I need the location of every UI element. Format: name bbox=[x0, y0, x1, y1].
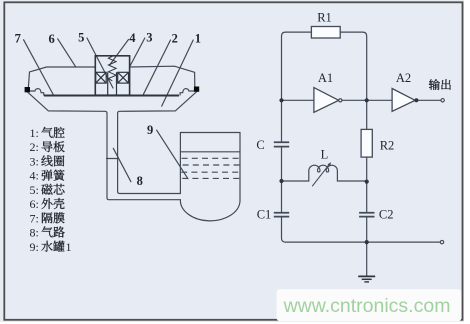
pipe joint tick bbox=[107, 158, 118, 160]
diaphragm thick line (part 7) bbox=[44, 94, 179, 96]
L variable arrow bbox=[312, 164, 329, 186]
junction dot L right / R2 bottom bbox=[365, 180, 369, 184]
water dashed line 2 bbox=[183, 164, 240, 166]
spring zigzag (part 4) bbox=[108, 56, 116, 81]
resistor R2 bbox=[361, 129, 372, 157]
housing bottom cone left + pipe outer wall bbox=[27, 92, 180, 200]
inductor L coil bbox=[309, 165, 338, 172]
right seal block (black square) bbox=[194, 87, 199, 92]
svg-text:9:: 9: bbox=[30, 240, 39, 254]
svg-text:1:: 1: bbox=[30, 126, 39, 140]
bottom rail terminal circle bbox=[440, 240, 443, 243]
svg-text:5:: 5: bbox=[30, 183, 39, 197]
svg-text:6: 6 bbox=[48, 32, 54, 46]
output label 输出 bbox=[429, 79, 440, 90]
output terminal circle bbox=[441, 99, 444, 102]
svg-text:3: 3 bbox=[146, 30, 152, 44]
svg-text:R1: R1 bbox=[317, 11, 332, 25]
leader line 6 bbox=[58, 39, 76, 67]
left seal block (black square) bbox=[25, 87, 30, 92]
wire: left rail (C / C1 column) bbox=[282, 100, 286, 242]
junction dot L left bbox=[279, 179, 283, 183]
capacitor C plates bbox=[274, 142, 289, 146]
wire: ground stem bbox=[366, 242, 368, 276]
wire: R1 feedback top loop bbox=[282, 32, 367, 100]
water dashed line 3 bbox=[181, 171, 242, 173]
svg-text:A2: A2 bbox=[396, 71, 411, 85]
op-amp A1 bbox=[314, 88, 339, 113]
ground symbol bbox=[358, 276, 375, 282]
svg-text:L: L bbox=[321, 148, 329, 162]
op-amp A2 bbox=[392, 89, 415, 112]
water dashed line 4 bbox=[182, 177, 243, 179]
junction dot bottom rail bbox=[365, 240, 369, 244]
water surface solid line bbox=[181, 151, 240, 153]
svg-text:2:: 2: bbox=[30, 140, 39, 154]
water tank hemispherical bottom bbox=[180, 200, 240, 221]
svg-text:6:: 6: bbox=[30, 197, 39, 211]
svg-text:C: C bbox=[256, 138, 264, 152]
magnetic core (part 5) bbox=[108, 72, 117, 94]
capacitor C2 plates bbox=[359, 213, 374, 217]
svg-text:A1: A1 bbox=[318, 71, 333, 85]
svg-text:1: 1 bbox=[195, 31, 201, 45]
svg-text:8:: 8: bbox=[30, 226, 39, 240]
water tank (part 9) walls bbox=[180, 133, 240, 202]
housing shell (outer case, part 6) bbox=[28, 66, 194, 87]
svg-text:4: 4 bbox=[129, 31, 136, 45]
svg-text:5: 5 bbox=[78, 31, 84, 45]
leader line 7 bbox=[24, 40, 54, 96]
wire: L right lead bbox=[337, 171, 366, 181]
leader line 2 bbox=[143, 40, 170, 94]
svg-text:9: 9 bbox=[147, 123, 153, 137]
svg-text:R2: R2 bbox=[380, 139, 395, 153]
leader line 1 bbox=[162, 40, 194, 106]
water dashed line 1 bbox=[182, 157, 240, 159]
leader line 8 bbox=[113, 148, 131, 181]
housing right notch profile bbox=[180, 89, 194, 95]
leader line 5 bbox=[87, 38, 113, 88]
housing left notch profile bbox=[30, 89, 44, 95]
coil assembly outer box bbox=[95, 56, 129, 95]
svg-text:3:: 3: bbox=[30, 154, 39, 168]
svg-text:7:: 7: bbox=[30, 211, 39, 225]
wire: A1 output to A2 input bbox=[342, 99, 392, 101]
housing bottom cone right + pipe inner wall bbox=[118, 92, 197, 194]
leader line 3 bbox=[130, 38, 145, 66]
leader line 9 bbox=[157, 130, 188, 179]
left coil box (part 3) bbox=[96, 72, 107, 83]
right coil box (part 3) bbox=[118, 72, 129, 83]
watermark box bbox=[277, 289, 462, 321]
resistor R1 bbox=[311, 27, 340, 39]
svg-text:2: 2 bbox=[172, 31, 178, 45]
A1 inverter bubble bbox=[339, 99, 342, 102]
wire: A2 output to terminal bbox=[416, 99, 440, 101]
svg-text:C1: C1 bbox=[257, 208, 272, 222]
wire: A1 input bbox=[282, 99, 314, 101]
A2 output junction dot bbox=[414, 98, 418, 102]
svg-text:8: 8 bbox=[137, 174, 143, 188]
wire: L left lead bbox=[282, 171, 309, 181]
svg-text:www.cntronics.com: www.cntronics.com bbox=[283, 295, 451, 317]
svg-text:C2: C2 bbox=[379, 208, 394, 222]
junction dot A1 input bbox=[279, 98, 283, 102]
svg-text:4:: 4: bbox=[30, 169, 39, 183]
svg-text:1: 1 bbox=[66, 240, 72, 254]
svg-text:7: 7 bbox=[15, 32, 21, 46]
wire: R2 column bbox=[366, 100, 368, 242]
wire: bottom rail bbox=[286, 241, 441, 243]
leader line 4 bbox=[110, 40, 129, 65]
junction dot R1/A1 output node bbox=[365, 98, 369, 102]
capacitor C1 plates bbox=[274, 213, 289, 217]
